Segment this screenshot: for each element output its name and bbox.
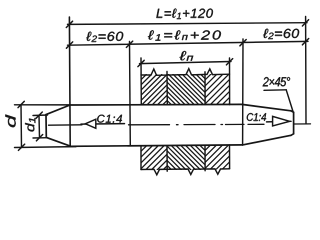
label d rotated [5, 115, 15, 128]
taper triangle left [85, 119, 96, 128]
label d1 rotated [25, 118, 35, 132]
taper symbol line left [81, 123, 125, 126]
taper symbol line right [267, 120, 292, 123]
hatch top section B [136, 74, 236, 105]
tick d1 top [36, 112, 42, 118]
tick d bottom [18, 144, 24, 150]
extension line ln left / top block left edge [140, 58, 142, 105]
bottom grip block bottom edge with breaks [141, 169, 230, 175]
chamfer bottom right [291, 134, 294, 136]
extension line x129 [129, 42, 132, 146]
bottom block left edge [140, 146, 142, 170]
top block divider x205 [204, 72, 206, 105]
extension line d top [15, 104, 71, 106]
extension line ln right / top block right edge [229, 58, 231, 105]
label C1:4 right [247, 113, 266, 121]
tick L left [66, 21, 72, 27]
centerline dash-dot [49, 124, 311, 125]
label C1:4 left [97, 115, 122, 123]
bottom block divider x205 [204, 145, 206, 170]
label 2x45deg [263, 77, 290, 86]
label ln [180, 51, 194, 61]
dimension d1 vertical line [38, 115, 41, 138]
chamfer top right [291, 111, 294, 113]
tick row2 x129 [126, 41, 132, 47]
hatch bottom section E [142, 145, 229, 170]
dimension line l2 l1 l2 [68, 41, 309, 45]
dimension d vertical line [20, 105, 23, 148]
tick ln left [138, 60, 144, 66]
shaft left cone bottom edge [46, 137, 70, 146]
leader 2x45 slant [286, 90, 293, 112]
label L = l1 + 120 [156, 9, 213, 19]
top block divider x167 [166, 72, 168, 105]
top grip block top edge with breaks [141, 69, 230, 76]
bottom block right edge [229, 145, 231, 169]
hatch bottom section D [117, 146, 194, 171]
shaft bottom edge [71, 145, 243, 146]
extension line left x69 [68, 17, 71, 146]
shaft right cone top edge [242, 104, 291, 110]
hatch bottom section F [180, 145, 254, 171]
bottom block divider x167 [166, 146, 168, 171]
dimension line L [68, 23, 308, 25]
extension line d bottom [15, 146, 77, 149]
label l2=60 left [86, 32, 123, 42]
tick d top [18, 101, 24, 107]
tick ln right [226, 59, 232, 65]
extension line d1 top [33, 114, 48, 117]
tick row2 x305 [302, 39, 308, 45]
extension line right x305 [305, 17, 307, 124]
shaft right cone bottom edge [243, 135, 291, 145]
tick row2 x243 [240, 40, 246, 46]
hatch top section A [111, 75, 199, 106]
tick d1 bottom [36, 135, 42, 141]
dimension line ln [140, 62, 232, 64]
taper triangle right [273, 116, 290, 126]
shaft left cone top edge [46, 105, 70, 115]
hatch top section C [174, 74, 259, 105]
label l2=60 right [263, 29, 299, 39]
tick row2 x69 [66, 42, 72, 48]
leader 2x45 underline [264, 89, 286, 92]
extension line x243 [242, 39, 244, 145]
shaft left tip face [45, 115, 47, 138]
shaft top edge [70, 103, 242, 106]
extension line d1 bottom [33, 137, 48, 139]
tick L right [302, 20, 308, 26]
label l1 = ln + 20 [148, 30, 221, 40]
shaft right tip face [293, 112, 295, 134]
